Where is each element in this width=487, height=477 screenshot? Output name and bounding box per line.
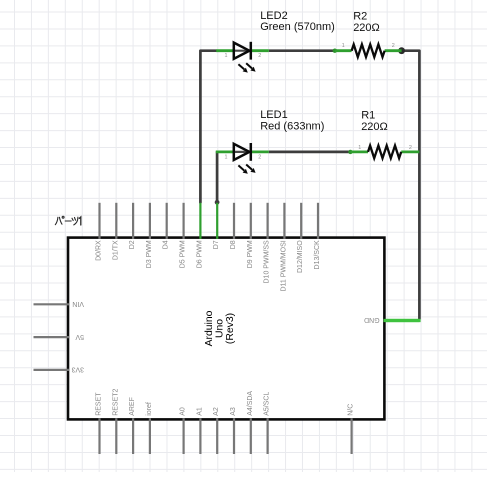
wire LED1 cathode to R1 pin1 [269, 151, 351, 154]
svg-text:D3 PWM: D3 PWM [146, 240, 153, 268]
part title [55, 216, 81, 225]
svg-text:220Ω: 220Ω [361, 121, 388, 133]
LED2 triangle (anode) [234, 43, 250, 59]
svg-text:A5/SCL: A5/SCL [264, 392, 271, 416]
svg-text:Arduino: Arduino [204, 310, 215, 346]
svg-text:D11 PWM/MOSI: D11 PWM/MOSI [280, 240, 287, 291]
LED1 emission arrows [238, 165, 255, 174]
svg-text:D6 PWM: D6 PWM [196, 240, 203, 268]
svg-text:N/C: N/C [348, 404, 355, 416]
svg-text:3V3: 3V3 [71, 366, 84, 373]
R1 pin2 leg [401, 150, 419, 153]
svg-text:ioref: ioref [146, 402, 153, 416]
pin A2 (bottom) [216, 418, 218, 454]
pin D0/RX (top) [98, 203, 100, 239]
svg-text:2: 2 [409, 145, 412, 151]
svg-text:D10 PWM/SS: D10 PWM/SS [264, 240, 271, 284]
R2 zigzag body [352, 44, 385, 57]
pin D2 (top) [132, 203, 134, 239]
svg-text:LED2: LED2 [260, 10, 288, 22]
pin D12/MISO (top) [300, 203, 302, 239]
svg-text:D1/TX: D1/TX [112, 240, 119, 260]
R2 pin2 leg [385, 49, 402, 52]
Arduino center label [204, 310, 236, 346]
wire D7 pin to LED1 anode [216, 152, 219, 203]
svg-text:2: 2 [258, 53, 261, 59]
LED1 pin2 leg [251, 150, 269, 153]
LED2 pin2 leg [251, 49, 269, 52]
svg-text:D0/RX: D0/RX [96, 240, 103, 261]
LED2 emission arrows [238, 63, 255, 72]
svg-text:Green (570nm): Green (570nm) [260, 21, 335, 33]
svg-text:R2: R2 [353, 11, 367, 23]
LED1 pin1 leg [216, 150, 234, 153]
svg-text:Red (633nm): Red (633nm) [260, 120, 324, 132]
svg-text:VIN: VIN [72, 300, 84, 307]
svg-text:5V: 5V [75, 333, 84, 340]
wire R2 pin2 to GND (down right side) [402, 51, 420, 319]
Arduino Uno body [68, 238, 384, 420]
pin D5 PWM (top) [183, 203, 185, 239]
wire GND pin to R1/R2 net (green) [384, 319, 421, 322]
pin VIN (left) [34, 303, 70, 305]
pin D10 PWM/SS (top) [267, 203, 269, 239]
svg-text:2: 2 [392, 43, 395, 49]
svg-text:A3: A3 [230, 407, 237, 416]
svg-text:1: 1 [342, 43, 345, 49]
pin D6 PWM (top) [199, 203, 201, 239]
R1 zigzag body [368, 146, 401, 159]
pin D8 (top) [233, 203, 235, 239]
pin N/C (bottom) [351, 418, 353, 454]
svg-text:D7: D7 [213, 240, 220, 249]
svg-text:1: 1 [358, 145, 361, 151]
svg-text:1: 1 [225, 154, 228, 160]
svg-text:R1: R1 [361, 109, 375, 121]
svg-text:D12/MISO: D12/MISO [297, 240, 304, 273]
pin A3 (bottom) [233, 418, 235, 454]
LED2 internal pin line [234, 50, 251, 52]
svg-text:A4/SDA: A4/SDA [247, 391, 254, 416]
svg-text:RESET2: RESET2 [112, 388, 119, 415]
pin A5/SCL (bottom) [267, 418, 269, 454]
LED2 pin1 leg [216, 49, 233, 52]
svg-text:220Ω: 220Ω [353, 22, 380, 34]
LED1 triangle (anode) [234, 144, 250, 160]
wire D6 pin to LED2 anode [200, 51, 216, 203]
pin D9 PWM (top) [250, 203, 252, 239]
pin D3 PWM (top) [149, 203, 151, 239]
svg-text:D4: D4 [163, 240, 170, 249]
LED1 cathode bar [250, 143, 253, 161]
pin AREF (bottom) [132, 418, 134, 454]
LED2 cathode bar [250, 42, 253, 60]
pin D7 (top) [216, 203, 218, 239]
R2 pin1 leg [335, 49, 352, 52]
svg-text:D5 PWM: D5 PWM [180, 240, 187, 268]
pin ioref (bottom) [149, 418, 151, 454]
svg-text:D9 PWM: D9 PWM [247, 240, 254, 268]
pin A1 (bottom) [199, 418, 201, 454]
LED1 internal pin line [234, 151, 251, 153]
svg-text:D2: D2 [129, 240, 136, 249]
svg-text:(Rev3): (Rev3) [225, 313, 236, 344]
svg-text:RESET: RESET [96, 392, 103, 416]
svg-text:Uno: Uno [215, 319, 226, 338]
pin 3V3 (left) [34, 369, 70, 371]
R1 pin1 leg [350, 150, 368, 153]
svg-text:D8: D8 [230, 240, 237, 249]
pin RESET2 (bottom) [115, 418, 117, 454]
pin A4/SDA (bottom) [250, 418, 252, 454]
pin D4 (top) [166, 203, 168, 239]
svg-text:2: 2 [258, 154, 261, 160]
svg-text:D13/SCK: D13/SCK [314, 240, 321, 270]
wire bendpoint at D7 [215, 200, 220, 205]
svg-text:A0: A0 [180, 407, 187, 416]
pin GND (right) [384, 319, 420, 322]
svg-text:GND: GND [364, 316, 380, 323]
wire endpoint dot at R1 pin1 [348, 150, 352, 154]
svg-text:AREF: AREF [129, 397, 136, 416]
pin 5V (left) [34, 336, 70, 338]
pin D11 PWM/MOSI (top) [283, 203, 285, 239]
svg-text:1: 1 [225, 53, 228, 59]
pin RESET (bottom) [98, 418, 100, 454]
junction dot at R2 pin2 [398, 47, 405, 54]
wire endpoint dot at R2 pin1 [333, 49, 337, 53]
svg-text:A2: A2 [213, 407, 220, 416]
pin A0 (bottom) [183, 418, 185, 454]
pin D1/TX (top) [115, 203, 117, 239]
pin D13/SCK (top) [317, 203, 319, 239]
svg-text:A1: A1 [196, 407, 203, 416]
wire LED2 cathode to R2 pin1 [269, 49, 335, 52]
